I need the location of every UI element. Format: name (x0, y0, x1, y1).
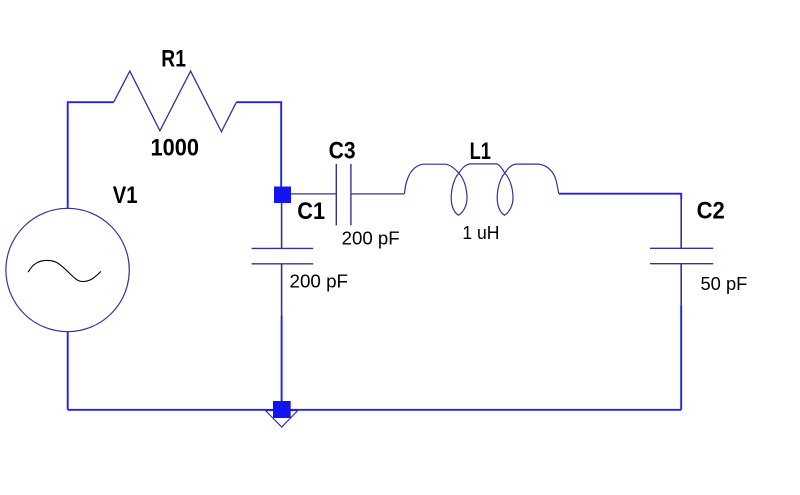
voltage source V1 (6, 208, 129, 331)
svg-text:L1: L1 (470, 138, 491, 165)
resistor R1 (114, 71, 237, 132)
wire C1 bottom to ground node (281, 316, 283, 403)
wire top rail right segment (236, 102, 281, 187)
capacitor C3 (291, 164, 405, 226)
node junction square (top, at C1/C3) (274, 187, 291, 204)
wire bottom rail (68, 409, 682, 411)
wire V1 bottom to rail (67, 332, 69, 410)
capacitor C2 (650, 199, 713, 305)
svg-text:1 uH: 1 uH (462, 222, 499, 243)
svg-text:C3: C3 (329, 138, 356, 165)
V1 sine waveform (28, 260, 101, 281)
inductor L1 (405, 164, 560, 215)
svg-text:C1: C1 (297, 198, 325, 225)
svg-text:V1: V1 (113, 182, 138, 209)
wire top rail left segment (68, 102, 114, 208)
wire C2 bottom lead to rail (680, 305, 682, 410)
wire L1 to C2 corner (559, 194, 681, 199)
svg-text:C2: C2 (697, 197, 725, 224)
ground (266, 401, 298, 427)
svg-text:R1: R1 (161, 46, 186, 73)
svg-text:1000: 1000 (151, 135, 200, 162)
capacitor C1 (252, 203, 314, 316)
svg-text:50 pF: 50 pF (701, 273, 748, 294)
svg-text:200 pF: 200 pF (342, 228, 400, 249)
svg-text:200 pF: 200 pF (290, 271, 349, 292)
